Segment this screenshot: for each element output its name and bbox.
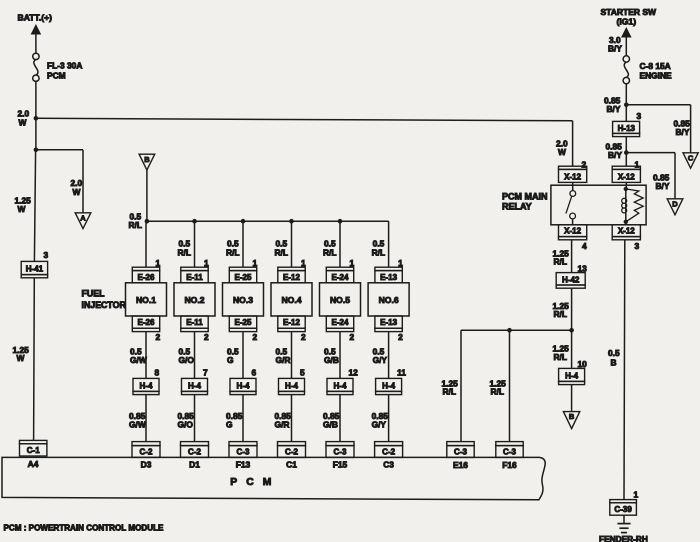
svg-text:4: 4 bbox=[582, 241, 587, 251]
svg-text:C-8 15A: C-8 15A bbox=[640, 61, 671, 71]
svg-text:F13: F13 bbox=[236, 459, 251, 469]
svg-text:D3: D3 bbox=[141, 459, 152, 469]
svg-text:INJECTOR: INJECTOR bbox=[82, 300, 127, 310]
svg-text:E-13: E-13 bbox=[380, 318, 397, 327]
svg-text:PCM: PCM bbox=[47, 71, 66, 81]
svg-text:NO.5: NO.5 bbox=[330, 295, 350, 305]
svg-text:12: 12 bbox=[349, 367, 359, 377]
svg-text:E-24: E-24 bbox=[332, 318, 349, 327]
svg-text:F15: F15 bbox=[333, 459, 348, 469]
svg-text:C-2: C-2 bbox=[188, 447, 201, 456]
svg-text:F16: F16 bbox=[502, 460, 517, 470]
svg-text:C-39: C-39 bbox=[614, 505, 632, 514]
svg-text:E-25: E-25 bbox=[235, 273, 252, 282]
svg-text:C-3: C-3 bbox=[237, 447, 250, 456]
svg-text:FL-3 30A: FL-3 30A bbox=[47, 60, 82, 70]
svg-text:E-11: E-11 bbox=[186, 318, 203, 327]
svg-text:2: 2 bbox=[156, 332, 161, 342]
svg-text:W: W bbox=[19, 117, 27, 127]
svg-text:NO.1: NO.1 bbox=[136, 295, 156, 305]
svg-text:H-4: H-4 bbox=[285, 382, 298, 391]
svg-text:B: B bbox=[569, 412, 575, 421]
svg-text:M: M bbox=[263, 477, 272, 488]
svg-text:G/B: G/B bbox=[323, 420, 338, 430]
svg-text:W: W bbox=[17, 353, 25, 363]
svg-text:FENDER-RH: FENDER-RH bbox=[599, 534, 648, 542]
svg-text:R/L: R/L bbox=[554, 257, 568, 267]
svg-text:H-4: H-4 bbox=[565, 372, 578, 381]
svg-text:W: W bbox=[73, 187, 81, 197]
svg-text:1: 1 bbox=[301, 258, 306, 268]
svg-text:W: W bbox=[18, 204, 26, 214]
svg-text:10: 10 bbox=[578, 359, 588, 369]
svg-text:B/Y: B/Y bbox=[607, 104, 621, 114]
svg-text:R/L: R/L bbox=[275, 247, 289, 257]
svg-text:E-24: E-24 bbox=[332, 273, 349, 282]
svg-text:C-3: C-3 bbox=[454, 447, 467, 456]
svg-text:C: C bbox=[246, 477, 254, 488]
svg-text:D1: D1 bbox=[189, 459, 200, 469]
svg-text:G/W: G/W bbox=[130, 355, 147, 365]
svg-text:1: 1 bbox=[253, 258, 258, 268]
svg-text:G: G bbox=[226, 420, 233, 430]
svg-text:G/R: G/R bbox=[275, 420, 290, 430]
svg-text:D: D bbox=[672, 199, 678, 208]
svg-text:C-3: C-3 bbox=[503, 447, 516, 456]
svg-text:G/O: G/O bbox=[179, 355, 195, 365]
svg-text:R/L: R/L bbox=[443, 387, 457, 397]
svg-text:3: 3 bbox=[44, 250, 49, 260]
svg-text:0.5: 0.5 bbox=[608, 348, 620, 358]
svg-text:2: 2 bbox=[398, 332, 403, 342]
svg-text:E-12: E-12 bbox=[283, 273, 300, 282]
svg-text:1: 1 bbox=[156, 258, 161, 268]
svg-text:R/L: R/L bbox=[491, 387, 505, 397]
svg-text:8: 8 bbox=[155, 367, 160, 377]
svg-text:3: 3 bbox=[637, 111, 642, 121]
svg-text:E-13: E-13 bbox=[380, 273, 397, 282]
svg-text:STARTER SW: STARTER SW bbox=[601, 7, 658, 17]
svg-text:1: 1 bbox=[398, 258, 403, 268]
svg-text:PCM : POWERTRAIN CONTROL MODUL: PCM : POWERTRAIN CONTROL MODULE bbox=[4, 524, 165, 533]
svg-text:(IG1): (IG1) bbox=[617, 17, 637, 27]
svg-text:H-42: H-42 bbox=[562, 275, 580, 284]
svg-text:1: 1 bbox=[350, 258, 355, 268]
svg-text:2: 2 bbox=[350, 332, 355, 342]
svg-text:C1: C1 bbox=[286, 459, 297, 469]
svg-text:R/L: R/L bbox=[372, 247, 386, 257]
svg-text:RELAY: RELAY bbox=[502, 202, 532, 212]
svg-text:11: 11 bbox=[397, 367, 406, 377]
svg-text:R/L: R/L bbox=[226, 247, 240, 257]
svg-text:BATT.(+): BATT.(+) bbox=[18, 13, 53, 23]
svg-text:E-26: E-26 bbox=[138, 273, 155, 282]
svg-text:G/Y: G/Y bbox=[372, 420, 387, 430]
svg-text:E-26: E-26 bbox=[138, 318, 155, 327]
svg-text:H-4: H-4 bbox=[334, 382, 347, 391]
svg-text:7: 7 bbox=[203, 367, 208, 377]
svg-text:X-12: X-12 bbox=[618, 172, 635, 181]
svg-text:C3: C3 bbox=[383, 459, 394, 469]
svg-text:X-12: X-12 bbox=[618, 227, 635, 236]
svg-text:R/L: R/L bbox=[323, 247, 337, 257]
svg-text:PCM MAIN: PCM MAIN bbox=[502, 191, 548, 201]
svg-text:E-11: E-11 bbox=[186, 273, 203, 282]
svg-text:E16: E16 bbox=[453, 460, 468, 470]
svg-text:NO.2: NO.2 bbox=[184, 295, 204, 305]
svg-text:B: B bbox=[144, 155, 150, 164]
svg-text:2: 2 bbox=[582, 159, 587, 169]
svg-text:H-4: H-4 bbox=[140, 382, 153, 391]
svg-text:5: 5 bbox=[300, 367, 305, 377]
svg-text:NO.6: NO.6 bbox=[379, 295, 399, 305]
svg-text:A4: A4 bbox=[28, 459, 39, 469]
svg-text:R/L: R/L bbox=[129, 220, 143, 230]
svg-text:H-13: H-13 bbox=[618, 124, 636, 133]
svg-text:G/B: G/B bbox=[324, 355, 339, 365]
svg-text:2: 2 bbox=[301, 332, 306, 342]
svg-text:R/L: R/L bbox=[178, 247, 192, 257]
svg-text:G/W: G/W bbox=[129, 420, 146, 430]
svg-text:R/L: R/L bbox=[554, 352, 568, 362]
svg-text:X-12: X-12 bbox=[564, 227, 581, 236]
svg-text:C-2: C-2 bbox=[285, 447, 298, 456]
svg-text:B: B bbox=[611, 358, 617, 368]
svg-text:FUEL: FUEL bbox=[82, 288, 106, 298]
svg-text:R/L: R/L bbox=[554, 309, 568, 319]
svg-text:H-4: H-4 bbox=[382, 382, 395, 391]
svg-text:ENGINE: ENGINE bbox=[640, 71, 673, 81]
svg-text:1: 1 bbox=[204, 258, 209, 268]
svg-text:NO.4: NO.4 bbox=[281, 295, 301, 305]
svg-text:H-4: H-4 bbox=[237, 382, 250, 391]
svg-text:2: 2 bbox=[253, 332, 258, 342]
svg-text:B/Y: B/Y bbox=[676, 127, 690, 137]
svg-text:C-1: C-1 bbox=[27, 446, 40, 455]
svg-text:A: A bbox=[80, 213, 86, 222]
svg-text:H-4: H-4 bbox=[188, 382, 201, 391]
svg-text:NO.3: NO.3 bbox=[233, 295, 253, 305]
svg-text:C-2: C-2 bbox=[140, 447, 153, 456]
svg-text:G/O: G/O bbox=[178, 420, 194, 430]
svg-text:B/Y: B/Y bbox=[656, 181, 670, 191]
svg-text:1: 1 bbox=[635, 159, 640, 169]
svg-text:X-12: X-12 bbox=[564, 172, 581, 181]
svg-text:G/Y: G/Y bbox=[373, 355, 388, 365]
svg-text:B/Y: B/Y bbox=[608, 44, 622, 54]
svg-text:6: 6 bbox=[252, 367, 257, 377]
svg-text:C-2: C-2 bbox=[382, 447, 395, 456]
svg-text:W: W bbox=[558, 147, 566, 157]
svg-text:G/R: G/R bbox=[276, 355, 291, 365]
svg-text:E-12: E-12 bbox=[283, 318, 300, 327]
svg-text:H-41: H-41 bbox=[26, 265, 44, 274]
svg-text:1: 1 bbox=[634, 490, 639, 500]
svg-text:3: 3 bbox=[635, 241, 640, 251]
svg-text:G: G bbox=[227, 355, 234, 365]
svg-text:C: C bbox=[688, 153, 694, 162]
svg-text:C-3: C-3 bbox=[334, 447, 347, 456]
svg-text:E-25: E-25 bbox=[235, 318, 252, 327]
svg-text:B/Y: B/Y bbox=[608, 150, 622, 160]
svg-text:13: 13 bbox=[578, 263, 588, 273]
svg-text:P: P bbox=[230, 477, 237, 488]
svg-text:2: 2 bbox=[204, 332, 209, 342]
